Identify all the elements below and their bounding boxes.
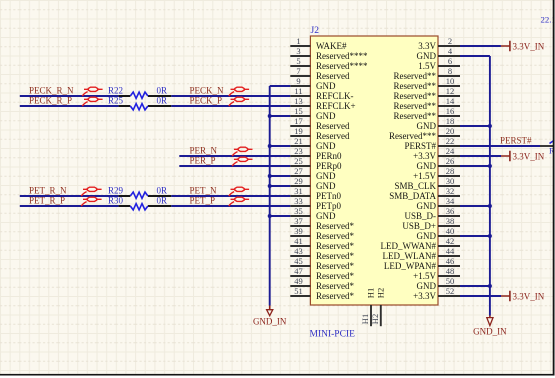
svg-text:H1: H1 bbox=[360, 314, 370, 324]
power port 3.3V_IN (pin 2) bbox=[501, 41, 545, 52]
wire GND to pin 21 bbox=[270, 145, 291, 147]
connector J2 pin 27 (GND) bbox=[290, 166, 336, 181]
differential pair directive (PET_R_P) bbox=[81, 197, 101, 206]
connector J2 pin 11 (REFCLK-) bbox=[290, 86, 353, 101]
connector J2 pin 44 (LED_WLAN#) bbox=[383, 246, 461, 261]
svg-text:GND: GND bbox=[316, 211, 336, 221]
differential pair directive (PET_R_N) bbox=[81, 187, 101, 196]
svg-text:LED_WPAN#: LED_WPAN# bbox=[384, 261, 437, 271]
svg-text:REFCLK+: REFCLK+ bbox=[316, 101, 356, 111]
connector J2 pin 37 (Reserved*) bbox=[290, 216, 354, 231]
connector J2 pin 26 (GND) bbox=[417, 156, 461, 171]
connector J2 pin 43 (Reserved*) bbox=[290, 246, 354, 261]
svg-text:PER_P: PER_P bbox=[190, 156, 216, 166]
svg-text:Reserved: Reserved bbox=[316, 71, 350, 81]
svg-text:Reserved*: Reserved* bbox=[316, 271, 354, 281]
connector J2 pin 29 (GND) bbox=[290, 176, 336, 191]
connector J2 pin 28 (+1.5V) bbox=[413, 166, 460, 181]
svg-text:3.3V: 3.3V bbox=[418, 41, 436, 51]
svg-text:5: 5 bbox=[296, 56, 300, 66]
svg-text:PECK_R_N: PECK_R_N bbox=[29, 86, 74, 96]
svg-text:GND_IN: GND_IN bbox=[253, 316, 287, 326]
resistor R22 0R bbox=[108, 86, 171, 99]
wire pin 24 to 3.3V_IN bbox=[460, 155, 501, 157]
power port 3.3V_IN (pin 52) bbox=[501, 291, 545, 302]
svg-text:51: 51 bbox=[294, 286, 303, 296]
svg-text:0R: 0R bbox=[157, 96, 168, 106]
wire PER_N bbox=[179, 155, 290, 157]
svg-text:SMB_DATA: SMB_DATA bbox=[389, 191, 436, 201]
resistor R30 0R bbox=[108, 196, 171, 210]
svg-text:48: 48 bbox=[446, 266, 455, 276]
svg-text:PECK_N: PECK_N bbox=[190, 86, 225, 96]
svg-text:PETp0: PETp0 bbox=[316, 201, 342, 211]
wire PECK_R_N bbox=[20, 95, 119, 97]
wire PET_R_P bbox=[20, 205, 119, 207]
svg-text:+3.3V: +3.3V bbox=[413, 151, 436, 161]
svg-text:+3.3V: +3.3V bbox=[413, 291, 436, 301]
connector J2 pin 18 (GND) bbox=[417, 116, 461, 131]
svg-text:44: 44 bbox=[446, 246, 455, 256]
svg-text:Reserved*: Reserved* bbox=[316, 221, 354, 231]
differential pair directive (PECK_R_P) bbox=[82, 97, 102, 106]
svg-text:R25: R25 bbox=[108, 96, 124, 106]
svg-text:PER_N: PER_N bbox=[190, 146, 218, 156]
svg-text:WAKE#: WAKE# bbox=[316, 41, 347, 51]
svg-text:24: 24 bbox=[446, 146, 455, 156]
connector J2 pin 1 (WAKE#) bbox=[290, 36, 347, 51]
wire GND to pin 40 bbox=[460, 235, 490, 237]
connector J2 pin 25 (PERp0) bbox=[290, 156, 342, 171]
wire PECK_P bbox=[171, 105, 290, 107]
svg-text:USB_D+: USB_D+ bbox=[402, 221, 436, 231]
svg-text:14: 14 bbox=[446, 96, 455, 106]
svg-text:0R: 0R bbox=[157, 186, 168, 196]
connector J2 pin 46 (LED_WPAN#) bbox=[384, 256, 460, 271]
wire GND to pin 15 bbox=[270, 115, 291, 117]
svg-text:Reserved: Reserved bbox=[316, 121, 350, 131]
svg-text:LED_WLAN#: LED_WLAN# bbox=[383, 251, 437, 261]
connector J2 pin 50 (GND) bbox=[417, 276, 461, 291]
svg-text:GND: GND bbox=[417, 231, 437, 241]
svg-text:GND: GND bbox=[316, 111, 336, 121]
svg-text:GND_IN: GND_IN bbox=[473, 326, 507, 336]
wire GND to pin 35 bbox=[270, 215, 291, 217]
svg-text:43: 43 bbox=[294, 246, 303, 256]
power port 3.3V_IN (pin 24) bbox=[501, 151, 545, 162]
connector J2 pin 39 (Reserved*) bbox=[290, 226, 354, 241]
junction bbox=[268, 174, 272, 178]
svg-text:Reserved*: Reserved* bbox=[316, 251, 354, 261]
svg-text:PECK_R_P: PECK_R_P bbox=[29, 96, 72, 106]
wire GND bus vertical (right) bbox=[460, 56, 490, 316]
connector J2 pin 12 (Reserved**) bbox=[394, 86, 461, 101]
svg-text:42: 42 bbox=[446, 236, 455, 246]
svg-text:27: 27 bbox=[294, 166, 303, 176]
svg-text:Reserved****: Reserved**** bbox=[316, 61, 368, 71]
svg-text:2: 2 bbox=[448, 36, 452, 46]
svg-text:3.3V_IN: 3.3V_IN bbox=[513, 291, 545, 301]
connector J2 pin 9 (GND) bbox=[290, 76, 336, 91]
svg-text:PET_P: PET_P bbox=[190, 196, 216, 206]
wire GND to pin 34 bbox=[460, 205, 490, 207]
svg-text:39: 39 bbox=[294, 226, 303, 236]
svg-text:45: 45 bbox=[294, 256, 303, 266]
connector J2 pin 42 (LED_WWAN#) bbox=[381, 236, 461, 251]
svg-text:28: 28 bbox=[446, 166, 455, 176]
wire GND to pin 50 bbox=[460, 285, 490, 287]
wire PET_N bbox=[171, 195, 290, 197]
svg-text:PERST#: PERST# bbox=[404, 141, 436, 151]
connector J2 pin 4 (GND) bbox=[417, 46, 461, 61]
svg-text:PET_R_P: PET_R_P bbox=[29, 196, 65, 206]
junction bbox=[488, 204, 492, 208]
resistor R25 0R bbox=[108, 96, 171, 110]
svg-text:7: 7 bbox=[296, 66, 300, 76]
connector J2 pin 14 (Reserved**) bbox=[394, 96, 461, 111]
svg-text:30: 30 bbox=[446, 176, 455, 186]
svg-text:H2: H2 bbox=[375, 288, 385, 298]
svg-text:23: 23 bbox=[294, 146, 303, 156]
screenshot window border right bbox=[553, 0, 555, 376]
svg-text:20: 20 bbox=[446, 126, 455, 136]
svg-text:GND: GND bbox=[316, 141, 336, 151]
svg-text:Reserved*: Reserved* bbox=[316, 231, 354, 241]
svg-text:PERST#: PERST# bbox=[500, 136, 532, 146]
connector J2 pin H2 (mounting) bbox=[370, 288, 385, 326]
wire GND to pin 18 bbox=[460, 125, 490, 127]
connector J2 pin 33 (PETp0) bbox=[290, 196, 341, 211]
svg-text:41: 41 bbox=[294, 236, 303, 246]
svg-text:52: 52 bbox=[446, 286, 455, 296]
connector J2 pin 51 (Reserved*) bbox=[290, 286, 354, 301]
clipped symbol at right edge bbox=[549, 140, 555, 156]
connector J2 pin 6 (1.5V) bbox=[418, 56, 460, 71]
svg-text:LED_WWAN#: LED_WWAN# bbox=[381, 241, 437, 251]
differential pair directive (PER_P) bbox=[232, 157, 252, 166]
svg-text:+1.5V: +1.5V bbox=[413, 271, 436, 281]
svg-text:8: 8 bbox=[448, 66, 452, 76]
connector J2 pin 21 (GND) bbox=[290, 136, 336, 151]
connector J2 pin H1 (mounting) bbox=[360, 288, 375, 326]
svg-text:Reserved**: Reserved** bbox=[394, 91, 437, 101]
svg-text:13: 13 bbox=[294, 96, 303, 106]
svg-text:GND: GND bbox=[417, 161, 437, 171]
svg-text:0R: 0R bbox=[157, 196, 168, 206]
svg-text:50: 50 bbox=[446, 276, 455, 286]
connector J2 pin 35 (GND) bbox=[290, 206, 336, 221]
wire pin 52 to 3.3V_IN bbox=[460, 295, 501, 297]
svg-text:GND: GND bbox=[417, 121, 437, 131]
connector J2 pin 23 (PERn0) bbox=[290, 146, 342, 161]
connector J2 pin 30 (SMB_CLK) bbox=[394, 176, 460, 191]
wire PECK_R_P bbox=[20, 105, 119, 107]
svg-text:H2: H2 bbox=[370, 314, 380, 324]
svg-text:16: 16 bbox=[446, 106, 455, 116]
svg-text:46: 46 bbox=[446, 256, 455, 266]
svg-text:Reserved***: Reserved*** bbox=[389, 131, 436, 141]
svg-text:6: 6 bbox=[448, 56, 452, 66]
svg-text:REFCLK-: REFCLK- bbox=[316, 91, 354, 101]
svg-text:GND: GND bbox=[316, 171, 336, 181]
connector J2 pin 13 (REFCLK+) bbox=[290, 96, 355, 111]
svg-text:GND: GND bbox=[417, 201, 437, 211]
svg-text:9: 9 bbox=[296, 76, 300, 86]
connector J2 pin 19 (Reserved) bbox=[290, 126, 350, 141]
svg-text:49: 49 bbox=[294, 276, 303, 286]
differential pair directive (PET_P) bbox=[229, 197, 249, 206]
wire PET_P bbox=[171, 205, 290, 207]
connector J2 pin 17 (Reserved) bbox=[290, 116, 350, 131]
svg-text:PERn0: PERn0 bbox=[316, 151, 342, 161]
connector J2 pin 20 (Reserved***) bbox=[389, 126, 460, 141]
wire PECK_N bbox=[171, 95, 290, 97]
wire PERST# (pin 22) bbox=[460, 145, 540, 147]
svg-text:GND: GND bbox=[417, 281, 437, 291]
connector J2 pin 38 (USB_D+) bbox=[402, 216, 460, 231]
power port GND_IN (left) bbox=[253, 306, 287, 327]
connector J2 pin 22 (PERST#) bbox=[404, 136, 460, 151]
svg-text:H1: H1 bbox=[366, 288, 376, 298]
differential pair directive (PECK_P) bbox=[229, 97, 249, 106]
svg-text:PETn0: PETn0 bbox=[316, 191, 342, 201]
svg-text:32: 32 bbox=[446, 186, 455, 196]
svg-text:3: 3 bbox=[296, 46, 300, 56]
junction bbox=[268, 214, 272, 218]
connector J2 pin 49 (Reserved*) bbox=[290, 276, 354, 291]
svg-text:47: 47 bbox=[294, 266, 303, 276]
svg-text:Reserved****: Reserved**** bbox=[316, 51, 368, 61]
connector J2 body (MINI-PCIE) bbox=[310, 36, 438, 305]
svg-text:22: 22 bbox=[446, 136, 455, 146]
wire pin 2 to 3.3V_IN bbox=[460, 45, 501, 47]
junction bbox=[488, 234, 492, 238]
connector J2 pin 52 (+3.3V) bbox=[413, 286, 460, 301]
svg-text:R22: R22 bbox=[108, 86, 123, 96]
connector J2 pin 2 (3.3V) bbox=[418, 36, 460, 51]
svg-text:3.3V_IN: 3.3V_IN bbox=[513, 151, 545, 161]
junction bbox=[268, 144, 272, 148]
svg-text:21: 21 bbox=[294, 136, 303, 146]
svg-text:USB_D-: USB_D- bbox=[404, 211, 436, 221]
svg-text:1.5V: 1.5V bbox=[418, 61, 436, 71]
wire PET_R_N bbox=[20, 195, 119, 197]
svg-text:11: 11 bbox=[294, 86, 302, 96]
svg-text:12: 12 bbox=[446, 86, 455, 96]
svg-text:PERp0: PERp0 bbox=[316, 161, 342, 171]
svg-text:Reserved*: Reserved* bbox=[316, 241, 354, 251]
connector J2 pin 32 (SMB_DATA) bbox=[389, 186, 460, 201]
connector J2 pin 7 (Reserved) bbox=[290, 66, 350, 81]
connector J2 pin 34 (GND) bbox=[417, 196, 461, 211]
svg-text:25: 25 bbox=[294, 156, 303, 166]
svg-text:R29: R29 bbox=[108, 186, 124, 196]
connector J2 pin 10 (Reserved**) bbox=[394, 76, 461, 91]
wire GND to pin 9 bbox=[270, 85, 291, 87]
screenshot window border bottom bbox=[0, 374, 555, 376]
svg-text:Reserved**: Reserved** bbox=[394, 111, 437, 121]
differential pair directive (PECK_R_N) bbox=[82, 87, 102, 96]
svg-text:0R: 0R bbox=[157, 86, 168, 96]
svg-text:Reserved*: Reserved* bbox=[316, 281, 354, 291]
connector J2 pin 31 (PETn0) bbox=[290, 186, 341, 201]
svg-text:R30: R30 bbox=[108, 196, 124, 206]
junction bbox=[488, 284, 492, 288]
svg-text:38: 38 bbox=[446, 216, 455, 226]
svg-text:+1.5V: +1.5V bbox=[413, 171, 436, 181]
svg-text:40: 40 bbox=[446, 226, 455, 236]
wire PER_P bbox=[179, 165, 290, 167]
connector J2 pin 15 (GND) bbox=[290, 106, 336, 121]
svg-text:29: 29 bbox=[294, 176, 303, 186]
svg-text:PECK_P: PECK_P bbox=[190, 96, 223, 106]
svg-text:3.3V_IN: 3.3V_IN bbox=[513, 41, 545, 51]
junction bbox=[268, 184, 272, 188]
junction bbox=[488, 164, 492, 168]
resistor R29 0R bbox=[108, 186, 171, 199]
svg-text:Reserved**: Reserved** bbox=[394, 71, 437, 81]
wire GND to pin 26 bbox=[460, 165, 490, 167]
svg-text:18: 18 bbox=[446, 116, 455, 126]
svg-text:Reserved**: Reserved** bbox=[394, 81, 437, 91]
junction bbox=[268, 114, 272, 118]
junction bbox=[488, 124, 492, 128]
svg-text:37: 37 bbox=[294, 216, 303, 226]
connector J2 pin 24 (+3.3V) bbox=[413, 146, 460, 161]
connector J2 pin 41 (Reserved*) bbox=[290, 236, 354, 251]
svg-text:35: 35 bbox=[294, 206, 303, 216]
svg-text:J2: J2 bbox=[311, 26, 320, 36]
svg-text:GND: GND bbox=[316, 181, 336, 191]
connector J2 pin 36 (USB_D-) bbox=[404, 206, 460, 221]
wire GND to pin 27 bbox=[270, 175, 291, 177]
differential pair directive (PECK_N) bbox=[229, 87, 249, 96]
differential pair directive (PET_N) bbox=[229, 187, 249, 196]
connector J2 pin 45 (Reserved*) bbox=[290, 256, 354, 271]
svg-text:GND: GND bbox=[316, 81, 336, 91]
svg-text:PET_R_N: PET_R_N bbox=[29, 186, 67, 196]
connector J2 pin 8 (Reserved**) bbox=[394, 66, 461, 81]
connector J2 pin 40 (GND) bbox=[417, 226, 461, 241]
svg-text:GND: GND bbox=[417, 51, 437, 61]
svg-text:PET_N: PET_N bbox=[190, 186, 218, 196]
svg-text:36: 36 bbox=[446, 206, 455, 216]
svg-text:Reserved**: Reserved** bbox=[394, 101, 437, 111]
connector J2 pin 47 (Reserved*) bbox=[290, 266, 354, 281]
wire GND to pin 29 bbox=[270, 185, 291, 187]
svg-text:Reserved*: Reserved* bbox=[316, 291, 354, 301]
svg-text:34: 34 bbox=[446, 196, 455, 206]
pin stub at sheet edge bbox=[540, 145, 553, 147]
svg-text:26: 26 bbox=[446, 156, 455, 166]
svg-text:15: 15 bbox=[294, 106, 303, 116]
svg-text:SMB_CLK: SMB_CLK bbox=[394, 181, 436, 191]
differential pair directive (PER_N) bbox=[232, 147, 252, 156]
svg-text:17: 17 bbox=[294, 116, 303, 126]
svg-text:19: 19 bbox=[294, 126, 303, 136]
svg-text:MINI-PCIE: MINI-PCIE bbox=[310, 330, 356, 340]
svg-text:10: 10 bbox=[446, 76, 455, 86]
svg-text:Reserved*: Reserved* bbox=[316, 261, 354, 271]
svg-text:31: 31 bbox=[294, 186, 303, 196]
svg-text:33: 33 bbox=[294, 196, 303, 206]
power port GND_IN (right) bbox=[473, 316, 507, 337]
wire GND bus vertical (left) bbox=[269, 86, 271, 306]
svg-text:Reserved: Reserved bbox=[316, 131, 350, 141]
connector J2 pin 48 (+1.5V) bbox=[413, 266, 460, 281]
svg-text:1: 1 bbox=[296, 36, 300, 46]
connector J2 pin 16 (Reserved**) bbox=[394, 106, 461, 121]
